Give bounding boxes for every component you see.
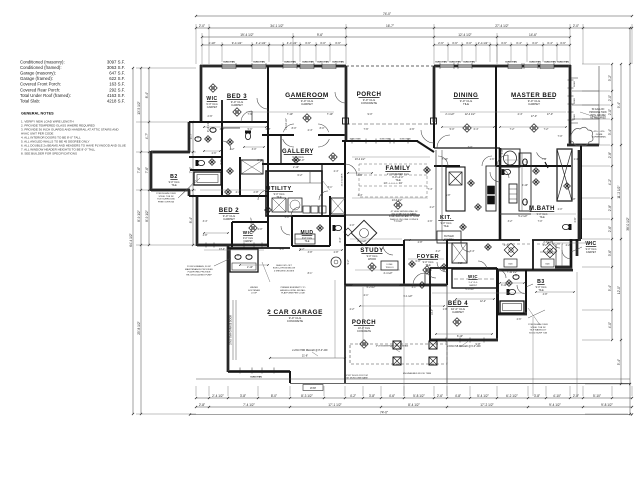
exterior left wall below B2 [188, 190, 191, 196]
porch steps lines [344, 285, 346, 383]
mbath sink 1 [523, 159, 528, 165]
svg-text:TILE: TILE [395, 179, 401, 182]
porch post 2 [429, 341, 437, 349]
svg-text:4'-2": 4'-2" [350, 394, 356, 398]
svg-text:4'-1": 4'-1" [412, 286, 417, 289]
wic2 wall horizontal [232, 221, 268, 223]
left local chain bed2 [192, 122, 194, 245]
svg-text:CARPET: CARPET [528, 102, 540, 106]
svg-text:8"X8" WOOD POST W/: 8"X8" WOOD POST W/ [346, 375, 368, 377]
svg-text:UTILITY: UTILITY [266, 186, 291, 192]
dining|master wall [495, 66, 497, 166]
svg-text:B&B: B&B [545, 264, 550, 266]
garage door opening lines [232, 300, 234, 360]
svg-text:8'-4 1/2": 8'-4 1/2" [408, 403, 420, 407]
svg-text:TILE: TILE [276, 196, 282, 199]
kitchen appliance dark 1 [488, 186, 495, 194]
pantry box [437, 231, 461, 243]
svg-text:4'-8": 4'-8" [543, 293, 548, 296]
svg-text:2'-6": 2'-6" [438, 41, 444, 45]
rear porch left wall [345, 66, 348, 141]
svg-text:25'-8 1/2": 25'-8 1/2" [137, 321, 141, 334]
svg-text:13'-4": 13'-4" [219, 248, 225, 251]
svg-text:AIR-BB & INTEL INSTALL: AIR-BB & INTEL INSTALL [280, 289, 306, 292]
svg-text:8'-4": 8'-4" [189, 217, 193, 223]
svg-text:SONO PAN: SONO PAN [332, 61, 344, 64]
svg-text:9'-1 1/2": 9'-1 1/2" [403, 295, 412, 298]
kitchen counter lines [435, 150, 437, 240]
bottom dimension chain row2 [196, 406, 632, 408]
svg-text:SONO: SONO [574, 114, 576, 120]
svg-text:Conditioned (masonry):: Conditioned (masonry): [20, 60, 65, 65]
svg-text:2'-10": 2'-10" [247, 266, 253, 269]
garage wh circle [331, 257, 341, 267]
svg-text:SONO: SONO [574, 98, 576, 104]
svg-text:1'-4": 1'-4" [574, 158, 579, 161]
svg-text:SONO PAN: SONO PAN [250, 376, 262, 379]
svg-text:SONO PAN: SONO PAN [529, 61, 541, 64]
svg-text:Garage (masonry):: Garage (masonry): [20, 71, 56, 76]
svg-text:CARPET: CARPET [586, 251, 597, 254]
window jamb ticks [221, 63, 223, 68]
kitchen island hatch square [449, 172, 462, 185]
svg-text:WATER: WATER [250, 286, 258, 289]
exterior left wall upper [200, 65, 203, 123]
svg-text:WIC: WIC [585, 241, 596, 247]
garage left wall [227, 246, 230, 372]
svg-text:Covered Front Porch:: Covered Front Porch: [20, 82, 61, 87]
bottom dimension chain total [190, 414, 632, 416]
svg-text:13'-4 1/2": 13'-4 1/2" [355, 158, 366, 161]
svg-text:FAMILY: FAMILY [385, 165, 410, 172]
svg-text:19'-4 1/2": 19'-4 1/2" [240, 33, 253, 37]
gameroom bottom wall right [318, 134, 346, 136]
svg-text:2'-4 1/2": 2'-4 1/2" [445, 113, 454, 116]
svg-text:27'-4 1/2": 27'-4 1/2" [495, 24, 508, 28]
bath b2 tub wall [190, 169, 222, 171]
svg-text:4'-1": 4'-1" [364, 294, 369, 297]
joint wall y196 [189, 195, 197, 197]
foyer top wall [404, 239, 447, 241]
svg-text:4'-2 1/2": 4'-2 1/2" [256, 41, 267, 45]
svg-text:14'-6": 14'-6" [529, 33, 537, 37]
svg-text:CONCRETE: CONCRETE [357, 330, 371, 333]
svg-text:8'-0": 8'-0" [271, 394, 277, 398]
svg-text:8'-4": 8'-4" [145, 92, 149, 98]
svg-text:4'-4 1/2": 4'-4 1/2" [383, 272, 392, 275]
gameroom porch door arc [335, 92, 346, 103]
utility room outline [266, 171, 322, 216]
svg-text:PLATFORM PER CODE: PLATFORM PER CODE [281, 292, 305, 295]
mbath right wall hatched [578, 150, 581, 239]
kitchen cabinet band [486, 166, 496, 211]
kitchen top wall [434, 147, 500, 149]
svg-text:CARPET: CARPET [301, 102, 313, 106]
svg-text:9'-8 1/2": 9'-8 1/2" [601, 403, 613, 407]
garage utility sink unit [230, 249, 258, 272]
wic closets divider [532, 240, 534, 270]
svg-text:WOOD: WOOD [368, 258, 376, 261]
svg-text:3'-8": 3'-8" [240, 394, 246, 398]
svg-text:5'-0 1/2": 5'-0 1/2" [465, 288, 474, 291]
svg-text:9'-10 1/2": 9'-10 1/2" [207, 122, 210, 132]
svg-text:SUPERPANEL: SUPERPANEL [592, 136, 607, 139]
svg-text:5'-0": 5'-0" [450, 128, 455, 131]
svg-text:2'-6": 2'-6" [574, 217, 577, 222]
svg-text:5'-2 1/2": 5'-2 1/2" [518, 215, 527, 218]
svg-text:SOFTENER: SOFTENER [248, 290, 260, 292]
se extension lines [532, 317, 534, 396]
svg-text:13'-4": 13'-4" [431, 309, 434, 315]
svg-text:WIC: WIC [468, 274, 478, 279]
rear porch floor line [346, 123, 434, 125]
shrub symbol [570, 127, 593, 145]
svg-text:2'-10": 2'-10" [293, 166, 299, 169]
porch post 3 [393, 357, 401, 365]
svg-text:M.BATH: M.BATH [529, 206, 555, 212]
svg-text:B2: B2 [170, 174, 178, 180]
rear porch top edge dashed [346, 65, 434, 67]
svg-text:2'-4": 2'-4" [334, 170, 339, 173]
entry door arc [413, 273, 425, 285]
svg-text:7'-4": 7'-4" [428, 188, 433, 191]
svg-text:50 GALLON: 50 GALLON [592, 108, 605, 111]
svg-text:4163 S.F.: 4163 S.F. [107, 93, 125, 98]
svg-text:9'-4": 9'-4" [617, 102, 621, 108]
svg-text:PRIMER BDR/RM/TV TO: PRIMER BDR/RM/TV TO [281, 287, 306, 289]
svg-text:8'-0": 8'-0" [292, 127, 297, 130]
svg-text:TILE: TILE [171, 184, 177, 187]
b3 bath west wall [497, 270, 499, 315]
bath vanity line [222, 127, 240, 129]
svg-text:8'-9 1/2": 8'-9 1/2" [145, 210, 149, 222]
svg-text:2'-8": 2'-8" [608, 152, 612, 158]
svg-text:17'-0": 17'-0" [547, 113, 553, 116]
svg-text:42" HIGH SERVING WALL W/: 42" HIGH SERVING WALL W/ [391, 210, 418, 213]
mbath wall stub [545, 162, 548, 168]
svg-text:3097 S.F.: 3097 S.F. [107, 60, 125, 65]
svg-text:42% + 42%: 42% + 42% [593, 131, 604, 133]
utility door arc [291, 207, 300, 216]
svg-text:3'-6": 3'-6" [358, 174, 363, 177]
exterior top wall right section [434, 65, 571, 68]
svg-text:9'-0" CLG: 9'-0" CLG [243, 238, 253, 240]
svg-text:7'-6": 7'-6" [137, 167, 141, 173]
gallery bottom wall [262, 163, 345, 165]
study east wall [403, 240, 405, 285]
exterior left wall bath section [188, 122, 191, 152]
mbath sink 2 [523, 199, 528, 205]
svg-text:6'-2": 6'-2" [298, 174, 303, 177]
svg-text:SONO PAN: SONO PAN [505, 61, 517, 64]
svg-text:CARPET: CARPET [207, 105, 218, 109]
right dimension chain mid [620, 64, 622, 384]
svg-text:3'-0": 3'-0" [252, 148, 257, 151]
svg-text:2'-8": 2'-8" [573, 394, 579, 398]
svg-text:SHELF W/ LOFT: SHELF W/ LOFT [276, 265, 292, 267]
b3 sink [513, 275, 519, 280]
svg-text:CARPET: CARPET [469, 284, 478, 287]
mbath toilet [562, 224, 571, 230]
svg-text:1'-6": 1'-6" [490, 158, 495, 161]
b2 sink [195, 137, 201, 142]
svg-text:3'-2": 3'-2" [508, 220, 513, 223]
svg-text:7'-6": 7'-6" [364, 128, 369, 131]
bottom dimension chain row1 [196, 397, 632, 399]
svg-text:3'-8": 3'-8" [369, 394, 375, 398]
garage bottom step [289, 371, 291, 383]
svg-text:TRELLIS: TRELLIS [385, 267, 394, 269]
garage top wall [228, 247, 290, 249]
svg-text:CARPET: CARPET [223, 217, 235, 221]
svg-text:3'-6": 3'-6" [452, 41, 458, 45]
svg-text:SONO PAN: SONO PAN [253, 61, 265, 64]
svg-text:2'-2": 2'-2" [566, 244, 571, 247]
svg-text:2'-8": 2'-8" [254, 191, 259, 194]
wic4 closet outline [452, 269, 497, 288]
svg-text:4'-2": 4'-2" [543, 244, 548, 247]
svg-text:Total Slab:: Total Slab: [20, 98, 40, 103]
svg-text:3'-0": 3'-0" [466, 41, 472, 45]
svg-text:163 S.F.: 163 S.F. [109, 82, 125, 87]
exterior right wall master [569, 65, 572, 146]
door swing arcs [283, 139, 294, 147]
svg-text:5'-4 1/2": 5'-4 1/2" [477, 394, 489, 398]
left dimension extension lines [136, 67, 196, 69]
rear porch post left [343, 118, 349, 124]
right dimension extension lines [582, 63, 610, 65]
svg-text:3'-6": 3'-6" [305, 41, 311, 45]
wic bump corner [570, 239, 573, 268]
master door arc [497, 155, 508, 166]
gallery west cased opening [280, 135, 282, 164]
svg-text:Covered Rear Porch:: Covered Rear Porch: [20, 87, 60, 92]
svg-text:GENERAL NOTES: GENERAL NOTES [21, 112, 54, 116]
foyer bottom wall / entry [404, 284, 447, 287]
svg-text:2'-2": 2'-2" [430, 206, 435, 209]
svg-text:DOME: DOME [596, 134, 603, 136]
svg-text:2-2X10 HDR RELLED @ 8'-0" AFF: 2-2X10 HDR RELLED @ 8'-0" AFF [292, 349, 328, 352]
svg-text:SONO PAN: SONO PAN [350, 138, 361, 141]
svg-text:622 S.F.: 622 S.F. [109, 76, 125, 81]
svg-text:SONO PAN: SONO PAN [463, 61, 475, 64]
bed3|gameroom wall [267, 66, 269, 135]
svg-text:12'-4 1/2": 12'-4 1/2" [458, 33, 471, 37]
svg-text:38'-0 1/2": 38'-0 1/2" [626, 217, 630, 230]
svg-text:AS REQUIRED: AS REQUIRED [590, 117, 606, 120]
gameroom bottom wall left [268, 134, 294, 136]
svg-text:7'-10": 7'-10" [287, 113, 293, 116]
gallery top wall left [262, 134, 294, 136]
svg-text:Conditioned (framed):: Conditioned (framed): [20, 65, 62, 70]
svg-text:9'-4 1/2": 9'-4 1/2" [232, 41, 243, 45]
svg-text:3'-0": 3'-0" [501, 149, 504, 154]
svg-text:2'-0": 2'-0" [573, 24, 579, 28]
svg-text:8'-9 1/2": 8'-9 1/2" [137, 210, 141, 222]
svg-text:SONO PAN: SONO PAN [317, 61, 329, 64]
svg-text:17'-0": 17'-0" [531, 115, 537, 118]
wic4 inner rod line [454, 278, 495, 280]
svg-text:12'-4 1/2": 12'-4 1/2" [465, 113, 476, 116]
svg-text:2'-8": 2'-8" [418, 241, 423, 244]
mud cubby boxes [303, 206, 310, 213]
bath3 shower [241, 160, 263, 174]
kitchen appliance dark 2 [488, 196, 495, 204]
svg-text:PORCELAIN OVER: PORCELAIN OVER [156, 192, 176, 195]
bath3 sink [210, 128, 216, 133]
family west wall [344, 141, 346, 246]
svg-text:17'-2 1/2": 17'-2 1/2" [480, 403, 493, 407]
interior dim lines with ticks [204, 126, 266, 128]
svg-text:TILE: TILE [538, 289, 544, 292]
svg-text:SONO PAN: SONO PAN [380, 138, 391, 141]
svg-text:74'-0": 74'-0" [383, 12, 391, 16]
wic3 divider wall [221, 100, 223, 122]
svg-text:2'-0": 2'-0" [608, 95, 612, 101]
left dimension chain mid [140, 68, 142, 414]
utility dryer [288, 198, 302, 212]
bed4-b3 right wall [576, 239, 579, 256]
svg-text:KIT.: KIT. [440, 215, 452, 221]
svg-text:4'-10": 4'-10" [553, 394, 561, 398]
mbath pocket arcs [500, 169, 509, 178]
dining opening arcs [438, 156, 448, 166]
bed4 east wall [496, 268, 498, 339]
svg-text:TILE: TILE [463, 102, 469, 106]
left dimension chain outer [132, 68, 134, 414]
svg-text:3'-6": 3'-6" [501, 41, 507, 45]
svg-text:LOOP: LOOP [251, 293, 258, 295]
b3 bath bottom wall [497, 313, 527, 316]
svg-text:SONO PAN: SONO PAN [435, 61, 447, 64]
svg-text:4'-6": 4'-6" [410, 128, 415, 131]
svg-text:CONCRETE: CONCRETE [287, 319, 303, 323]
svg-text:3'-0": 3'-0" [468, 146, 473, 149]
svg-text:3063 S.F.: 3063 S.F. [107, 65, 125, 70]
garage door box label [303, 385, 323, 391]
front porch beam dashed rect [350, 344, 447, 364]
svg-text:3'-2": 3'-2" [436, 250, 441, 253]
svg-text:EURO-4 PEGS BELOW: EURO-4 PEGS BELOW [273, 268, 295, 270]
general notes block [21, 112, 126, 156]
svg-text:2'-6": 2'-6" [212, 152, 217, 155]
svg-text:SONO PAN: SONO PAN [557, 61, 569, 64]
svg-text:3'-4": 3'-4" [203, 220, 208, 223]
svg-text:DOME: DOME [387, 264, 394, 266]
svg-text:3'-4": 3'-4" [470, 250, 475, 253]
svg-text:2'-8": 2'-8" [334, 251, 339, 254]
svg-text:3'-6": 3'-6" [335, 41, 341, 45]
svg-text:4'-3 1/2": 4'-3 1/2" [287, 41, 298, 45]
b3 bath east wall [525, 270, 527, 315]
rear porch post right [431, 118, 437, 124]
svg-text:7'-0": 7'-0" [538, 220, 543, 223]
bath cluster vertical 240 [239, 157, 241, 196]
svg-text:6'-2 1/2": 6'-2 1/2" [506, 394, 518, 398]
svg-text:9'-0": 9'-0" [368, 113, 373, 116]
svg-text:8'-0": 8'-0" [339, 237, 342, 242]
svg-text:SOLID SURF TUB: SOLID SURF TUB [529, 332, 548, 334]
bed2 east wall [267, 122, 269, 247]
wic bump bottom [555, 266, 572, 269]
svg-text:2'-6": 2'-6" [608, 226, 612, 232]
svg-text:2'-0": 2'-0" [350, 224, 355, 227]
svg-text:PROPANE TANK: PROPANE TANK [589, 111, 607, 114]
wic closet rods [502, 243, 530, 245]
svg-text:16'-7": 16'-7" [386, 24, 394, 28]
svg-text:SIT MON DOME BASE: SIT MON DOME BASE [346, 377, 368, 380]
svg-text:SONO PAN: SONO PAN [400, 138, 411, 141]
svg-text:2'-8": 2'-8" [258, 159, 263, 162]
mbath door arc [537, 152, 546, 159]
utility washer [272, 198, 286, 212]
se outline step [570, 239, 572, 267]
mbath shelving closet [557, 149, 572, 201]
bed4 top wall [430, 267, 497, 269]
study top wall [345, 244, 404, 246]
right dimension chain inner [611, 64, 613, 340]
mbath lower wall [500, 213, 531, 215]
svg-text:4'-7": 4'-7" [145, 133, 149, 139]
svg-text:SONO PAN: SONO PAN [544, 61, 556, 64]
svg-text:1'-8": 1'-8" [443, 308, 448, 311]
svg-text:292 S.F.: 292 S.F. [109, 87, 125, 92]
svg-text:647 S.F.: 647 S.F. [109, 71, 125, 76]
svg-text:Garage (framed):: Garage (framed): [20, 76, 53, 81]
top dimension chain total 74'-0" [196, 15, 632, 17]
svg-text:TILE: TILE [305, 241, 310, 243]
ceiling fan and light fixture symbols [209, 84, 217, 92]
right bump top wall [567, 144, 599, 147]
svg-text:6'-2 1/2": 6'-2 1/2" [367, 286, 376, 289]
svg-text:6'-4": 6'-4" [474, 128, 479, 131]
svg-text:4'-8": 4'-8" [203, 234, 208, 237]
svg-text:CARPET: CARPET [243, 240, 253, 243]
svg-text:2'-6": 2'-6" [437, 394, 443, 398]
wic3/bed3 block bottom wall [189, 121, 269, 123]
bed4 left wall lower [429, 300, 431, 341]
svg-text:10-0 SLIDER: 10-0 SLIDER [342, 173, 344, 186]
mbath linen cabinet [509, 184, 517, 203]
svg-text:6'-0": 6'-0" [416, 260, 421, 263]
svg-text:5'-8 1/2": 5'-8 1/2" [413, 394, 425, 398]
svg-text:13'-5 1/2": 13'-5 1/2" [137, 101, 141, 114]
B2 bump-out left wall [150, 151, 153, 191]
family coffered ceiling dashed [359, 164, 427, 197]
wic closet shelf box 1 [504, 259, 517, 267]
svg-text:7'-2": 7'-2" [544, 128, 549, 131]
foyer east wall [446, 240, 448, 285]
svg-text:PORCH: PORCH [352, 320, 376, 326]
svg-text:TILE SURROUND: TILE SURROUND [157, 199, 175, 201]
svg-text:4'-6": 4'-6" [389, 394, 395, 398]
bed4 bottom wall [430, 339, 498, 342]
hall wall powder [329, 196, 331, 216]
svg-text:7'-10 1/2": 7'-10 1/2" [507, 271, 518, 274]
utility counter line [268, 182, 322, 184]
svg-text:8'-1": 8'-1" [308, 272, 313, 275]
bed3 entry door arc [241, 111, 252, 122]
svg-text:3'-4": 3'-4" [608, 129, 612, 135]
svg-text:2'-6": 2'-6" [208, 115, 213, 118]
svg-text:3'-2": 3'-2" [608, 75, 612, 81]
svg-text:SONO PAN: SONO PAN [223, 61, 235, 64]
garage dim line [270, 357, 345, 359]
svg-text:2'-8": 2'-8" [608, 205, 612, 211]
wic band top wall [447, 239, 520, 241]
svg-text:FREE OVER SB: FREE OVER SB [158, 201, 175, 203]
kitchen bottom serving wall [345, 214, 420, 216]
